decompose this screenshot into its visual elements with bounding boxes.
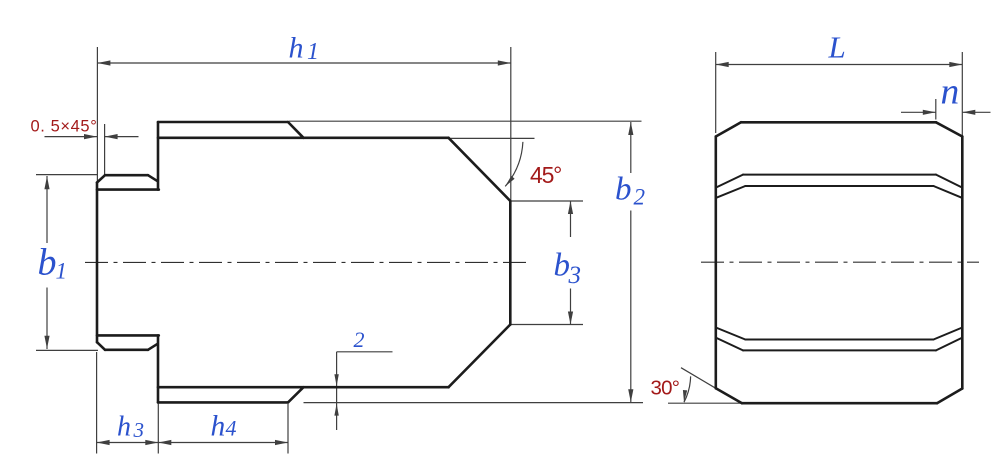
svg-text:3: 3: [568, 262, 582, 289]
svg-text:30°: 30°: [651, 377, 680, 400]
svg-text:h: h: [211, 411, 226, 443]
svg-text:1: 1: [56, 259, 68, 284]
svg-text:45°: 45°: [530, 162, 561, 188]
svg-text:1: 1: [307, 39, 319, 65]
svg-text:b: b: [615, 172, 632, 208]
svg-text:2: 2: [354, 327, 365, 352]
svg-text:h: h: [117, 412, 131, 443]
svg-text:h: h: [289, 32, 304, 65]
svg-text:n: n: [941, 72, 960, 113]
svg-text:2: 2: [634, 185, 646, 210]
svg-text:b: b: [38, 242, 57, 284]
svg-text:3: 3: [133, 418, 145, 442]
svg-text:0. 5×45°: 0. 5×45°: [31, 118, 98, 136]
svg-text:L: L: [828, 30, 846, 65]
svg-text:4: 4: [226, 416, 237, 441]
